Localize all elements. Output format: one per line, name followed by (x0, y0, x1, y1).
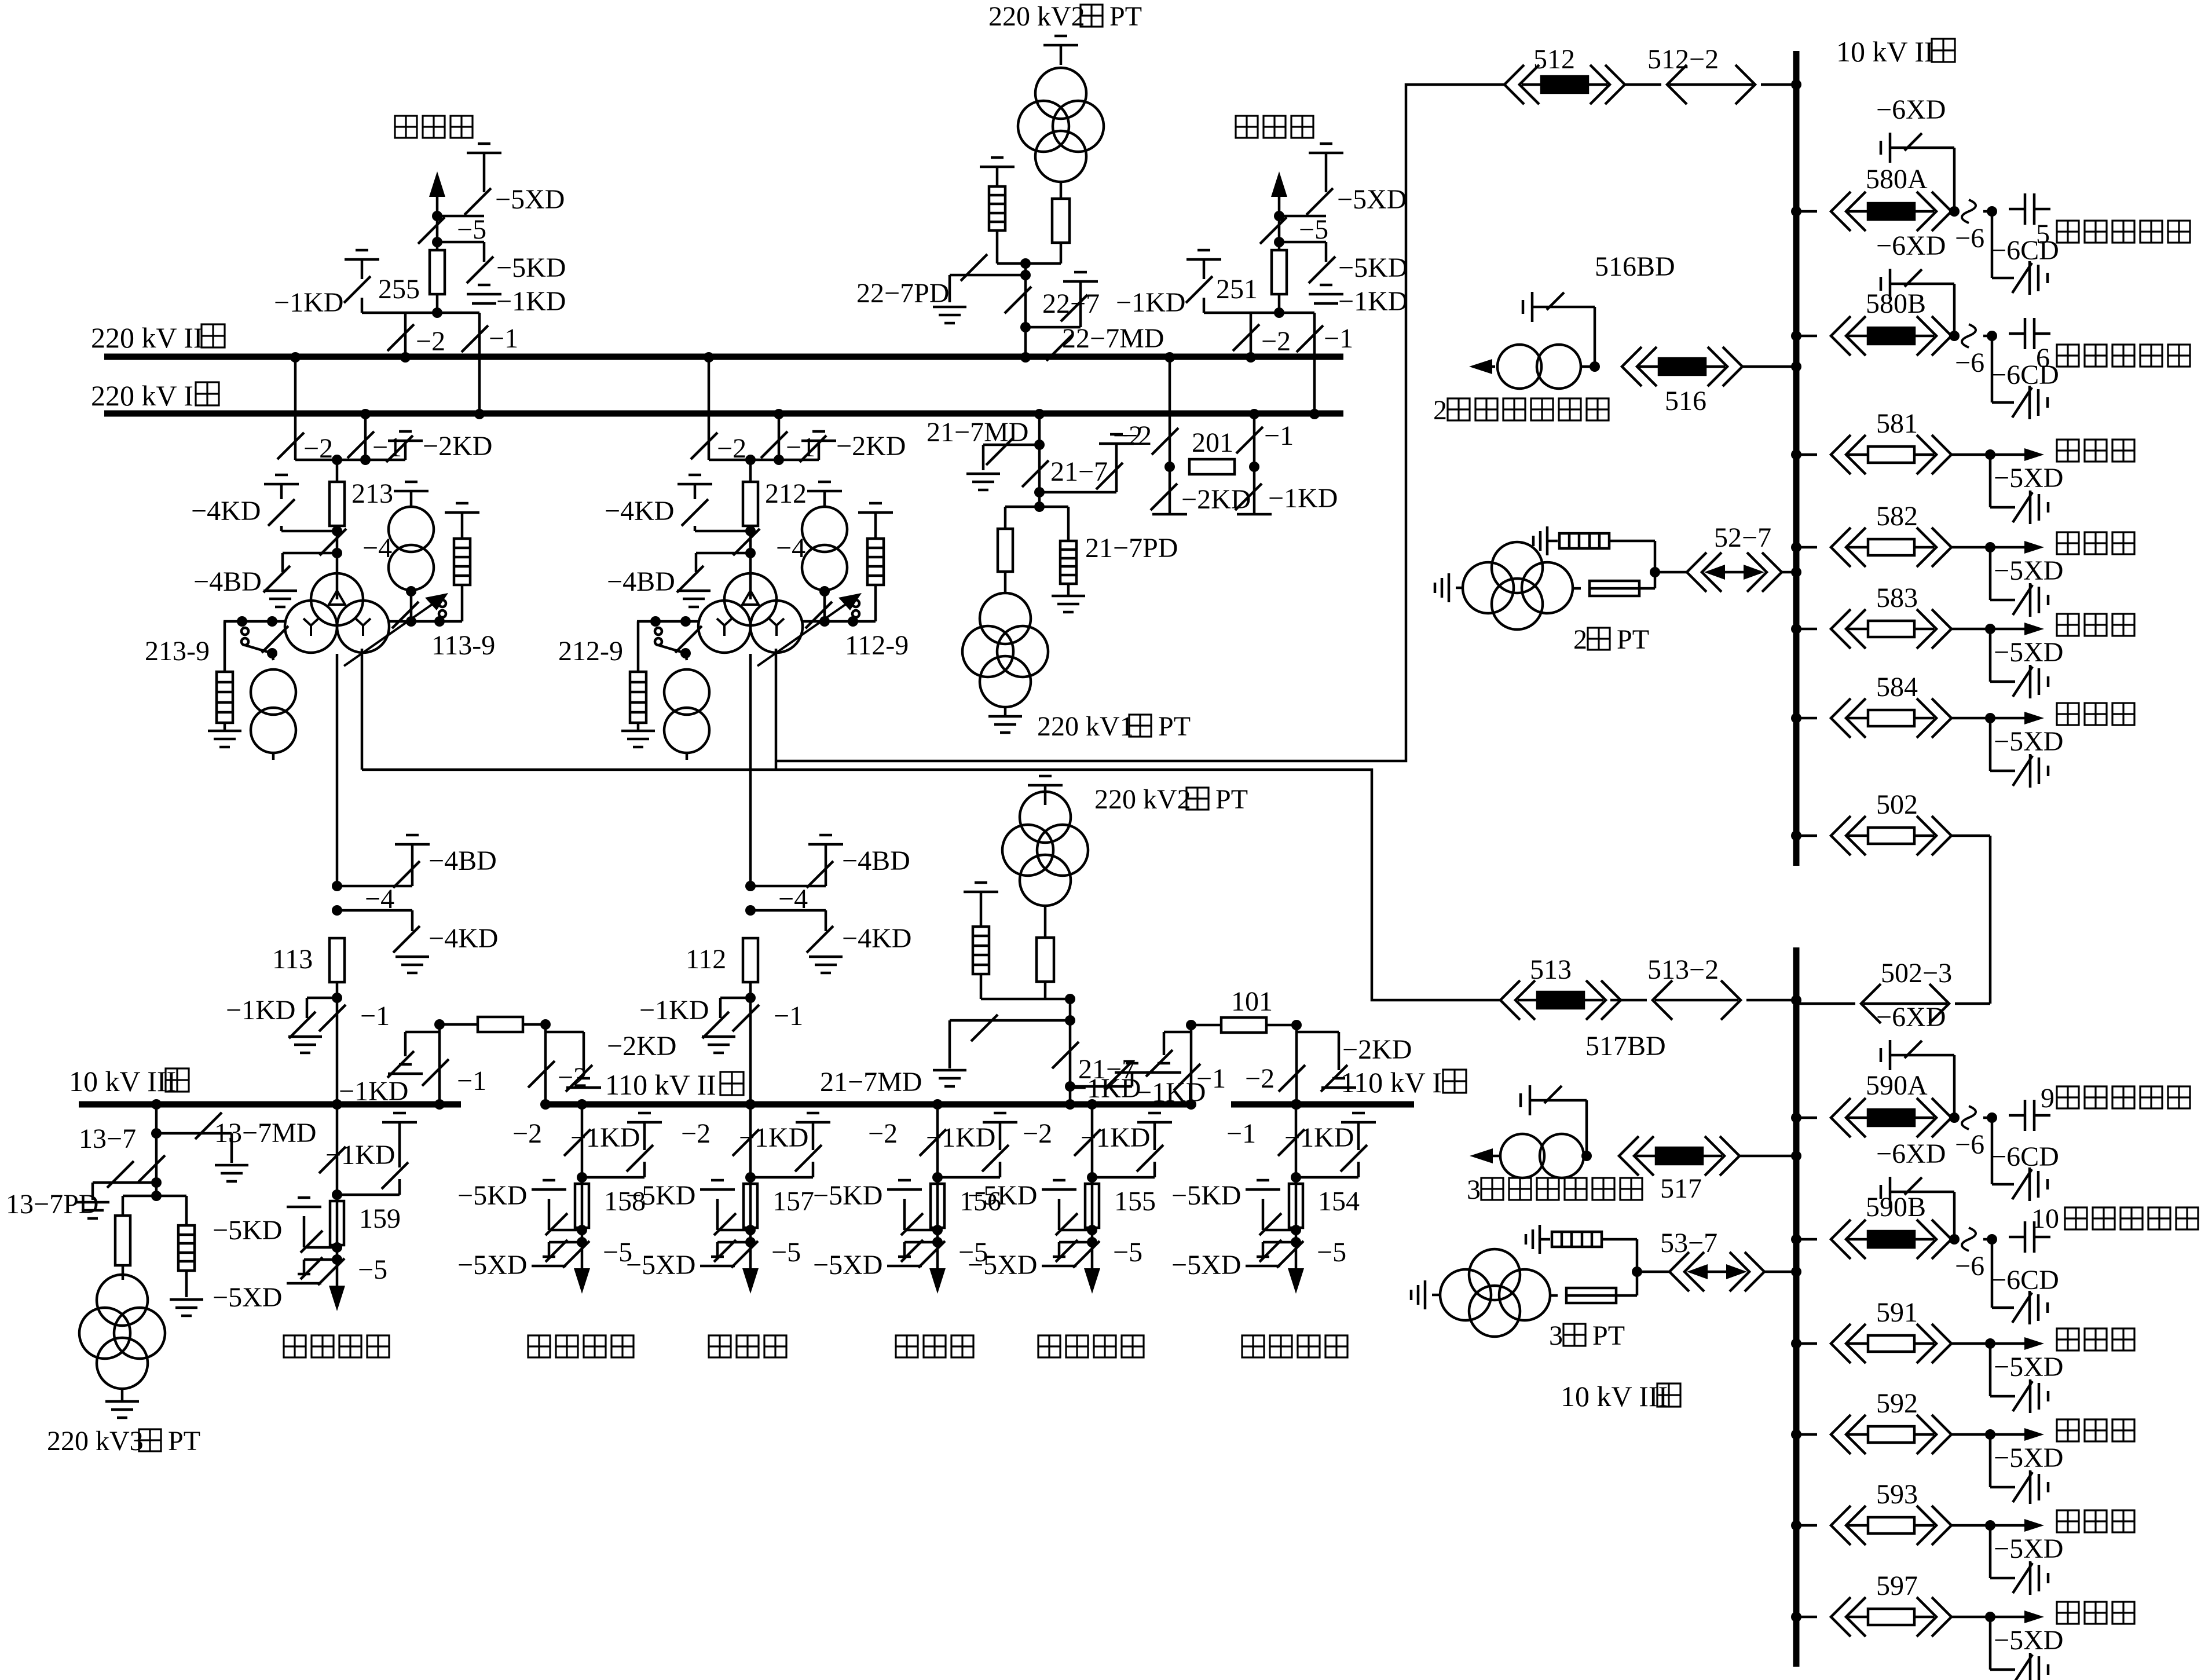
bus node 582 (1791, 542, 1817, 552)
PT 220kV2 (4-winding) (1018, 68, 1104, 182)
label -5XD 584 (1994, 726, 2063, 757)
departure arrow 583 (1990, 623, 2044, 635)
disconnector -5 f (1277, 1241, 1303, 1268)
ground 21-7PD (1052, 596, 1085, 612)
svg-text:−5XD: −5XD (1994, 463, 2063, 493)
node 13-7 b (151, 1177, 162, 1188)
wire -5XD 592 (1990, 1434, 2015, 1487)
grounding switch 13-7MD (156, 1112, 232, 1163)
capacitor (590B) (2009, 1221, 2050, 1253)
svg-text:220 kV1: 220 kV1 (1037, 711, 1134, 742)
svg-text:581: 581 (1876, 408, 1918, 439)
disconnector -4 (733, 529, 760, 555)
label 110 kV I section (1341, 1066, 1466, 1099)
disconnector -2 (bay) (691, 433, 717, 459)
arrester (bay right) (858, 503, 893, 621)
svg-text:−1KD: −1KD (739, 1122, 808, 1153)
drop 21-7 lower (1065, 999, 1075, 1110)
svg-text:−1KD: −1KD (1338, 286, 1408, 317)
label -2KD (bay) (836, 431, 906, 462)
disconnector -2 (to bus II) (1233, 313, 1259, 357)
label 512-2 (1647, 44, 1719, 75)
svg-text:−5XD: −5XD (1994, 1625, 2063, 1656)
disconnector -5 f (563, 1241, 589, 1268)
ground cap -1KD f (382, 1113, 417, 1189)
node 583 out (1985, 624, 1995, 634)
disconnector -2 (101) (1279, 1065, 1305, 1092)
label -5 f (1317, 1237, 1346, 1268)
label -5XD (1171, 1250, 1241, 1280)
label -6XD (580A) (1876, 94, 1946, 125)
contacts right (852, 600, 859, 617)
svg-text:−4BD: −4BD (842, 846, 910, 876)
grounding switch -4BD lower (750, 861, 833, 888)
feeder name (1038, 1335, 1144, 1357)
svg-text:−2KD: −2KD (1342, 1034, 1412, 1065)
PT 3hao (4-winding) (1440, 1249, 1550, 1337)
svg-text:−1KD: −1KD (1268, 483, 1338, 514)
bus node 13-7 (151, 1099, 162, 1196)
label -5KD (1338, 252, 1408, 283)
label 502 (1876, 789, 1918, 820)
grounding switch -5XD (714, 1240, 750, 1262)
svg-text:−5KD: −5KD (457, 1180, 527, 1211)
svg-text:3: 3 (1467, 1174, 1481, 1205)
disconnector -2 (to bus II) (387, 313, 414, 357)
grounding switch -1KD lower (289, 998, 337, 1038)
svg-text:113-9: 113-9 (431, 630, 495, 661)
node left ct (680, 648, 691, 660)
feeder name (1242, 1335, 1347, 1357)
node 597 out (1985, 1612, 1995, 1622)
svg-text:590B: 590B (1866, 1192, 1926, 1223)
ground cap -1KD f (982, 1113, 1017, 1172)
departure arrow 593 (1990, 1519, 2044, 1532)
label -2KD (101) (1342, 1034, 1412, 1065)
label -5 f (603, 1237, 632, 1268)
ground cap -5XD (1042, 1257, 1076, 1266)
bus node 580B (1791, 331, 1817, 341)
busbar 110 kV I section (1231, 1101, 1414, 1108)
label 157 (772, 1186, 814, 1217)
wire -5XD 597 (1990, 1617, 2015, 1670)
label -1KD (101) (1071, 1073, 1141, 1104)
label -4 text (362, 533, 392, 563)
label 220 kV II section (91, 321, 225, 354)
label 112 (686, 944, 726, 975)
node 13-7 a (151, 1128, 162, 1139)
label -4 lower (778, 884, 808, 914)
PT 220kV3 (4-winding) (79, 1275, 165, 1389)
contacts left (241, 626, 288, 653)
bus node 513-2 (1791, 995, 1801, 1005)
departure arrow 154 (1288, 1268, 1304, 1294)
node a (1274, 211, 1326, 221)
label 213 (351, 478, 393, 509)
label 22-7 (1042, 288, 1100, 319)
svg-text:−6: −6 (1955, 1129, 1984, 1160)
ground cap -5KD (887, 1180, 922, 1230)
disconnector −2 (feeder) (564, 1129, 591, 1156)
LV link left (224, 616, 285, 627)
label -4KD lower (429, 923, 498, 954)
grounding switch 13-7PD (93, 1161, 156, 1200)
capacitor bank name (2057, 1086, 2190, 1108)
svg-text:−5XD: −5XD (1337, 184, 1407, 215)
svg-text:21−7PD: 21−7PD (1085, 533, 1178, 563)
ground cap -1KD f (1137, 1113, 1172, 1172)
bus II node (400, 352, 411, 363)
label -4BD lower (429, 846, 497, 876)
node -4BD lower (745, 881, 756, 891)
label -1KD f (570, 1122, 640, 1153)
breaker 593 (drawout) (1831, 1506, 1951, 1545)
wire -5XD 582 (1990, 547, 2015, 600)
svg-text:−5XD: −5XD (457, 1250, 527, 1280)
label -5KD (1171, 1180, 1241, 1211)
svg-text:580A: 580A (1866, 164, 1928, 195)
ground 21-7MD lower (933, 1070, 966, 1086)
line departure arrow (429, 171, 445, 250)
wire 581 (1951, 453, 1990, 456)
svg-text:−2KD: −2KD (836, 431, 906, 462)
departure arrow 591 (1990, 1337, 2044, 1350)
label breaker 251 (1216, 274, 1258, 305)
grounding switch -5KD (1309, 257, 1335, 283)
breaker 582 (drawout) (1831, 528, 1951, 567)
node f b (745, 1225, 756, 1247)
label 22-7PD (856, 278, 949, 309)
svg-text:−2: −2 (1245, 1063, 1275, 1094)
svg-text:−2: −2 (868, 1118, 898, 1149)
HV lead down (336, 654, 339, 886)
HV lead down (749, 654, 752, 886)
PT2 fuse (1052, 182, 1070, 263)
svg-text:−2: −2 (1023, 1118, 1052, 1149)
svg-text:593: 593 (1876, 1479, 1918, 1510)
tie 101 right riser (1291, 1020, 1302, 1110)
node f a (332, 1179, 400, 1200)
feeder name 592 (2057, 1419, 2134, 1441)
bus node 112 (745, 1099, 756, 1110)
ground 21-7MD (966, 474, 1000, 490)
label 512 (1533, 44, 1575, 75)
svg-text:−1KD: −1KD (1284, 1122, 1354, 1153)
label -5 f (771, 1237, 801, 1268)
label -1 low (360, 1001, 390, 1031)
label 13-7MD (214, 1118, 316, 1148)
capacitor bank name (2057, 221, 2190, 243)
grounding switch -5XD 582 (2013, 583, 2048, 617)
breaker 597 (drawout) (1831, 1597, 1951, 1637)
breaker 155 (1085, 1184, 1099, 1228)
label 52-7 (1714, 522, 1771, 553)
node 22-7 b (1020, 295, 1087, 332)
disconnector -4 (320, 529, 346, 555)
label -1KD right (496, 286, 566, 317)
CT drop (392, 586, 419, 628)
tertiary lead down (775, 649, 778, 770)
breaker 581 (drawout) (1831, 435, 1951, 474)
svg-text:−5XD: −5XD (1994, 1533, 2063, 1564)
grounding sw -1KD (tie L) (387, 1032, 440, 1078)
wire to -6CD (1992, 1118, 2014, 1184)
bus I node (474, 409, 485, 419)
feeder name (284, 1335, 389, 1357)
disconnector -5 (418, 217, 445, 244)
svg-text:−1KD: −1KD (1116, 287, 1185, 318)
node 590B b (1983, 1234, 1997, 1245)
arrester (bay right) (445, 503, 479, 621)
label 513-2 (1647, 954, 1719, 985)
label 580A (1866, 164, 1928, 195)
disconnector 53-7 (1669, 1252, 1796, 1291)
svg-text:212: 212 (765, 478, 807, 509)
node 591 out (1985, 1338, 1995, 1349)
bus II node (1246, 352, 1256, 363)
svg-text:10 kV II: 10 kV II (1836, 35, 1934, 68)
label -4BD (193, 566, 262, 597)
LV link left (637, 616, 698, 627)
feeder name (896, 1335, 973, 1357)
svg-text:−1KD: −1KD (496, 286, 566, 317)
fuse bottom (2hao PT) (1573, 572, 1655, 596)
line departure arrow (1271, 171, 1287, 250)
disconnector -1 (101) (1174, 1064, 1200, 1090)
svg-text:−4KD: −4KD (429, 923, 498, 954)
label -2 (416, 326, 445, 357)
feeder name 584 (2057, 703, 2134, 725)
label -4 text (776, 533, 805, 563)
label -6CD (1991, 1265, 2059, 1295)
node f b (1291, 1225, 1301, 1247)
node c (405, 308, 479, 318)
label -1KD f (1284, 1122, 1354, 1153)
grounding switch 21-7MD lower (950, 1015, 1070, 1068)
ground cap -5XD (887, 1257, 922, 1266)
node 516 (1581, 361, 1600, 372)
wire tertiary link L2 (213 to 513) (362, 770, 1500, 1000)
breaker 255 (430, 250, 445, 313)
svg-text:−1: −1 (1226, 1118, 1256, 1149)
svg-text:−5KD: −5KD (813, 1180, 882, 1211)
node -1 lower (332, 993, 342, 1003)
node a (432, 211, 484, 221)
node -4 lower (332, 905, 342, 916)
grounding switch -4BD (263, 553, 337, 592)
label 3hao PT (1549, 1320, 1625, 1351)
node -4 lower (745, 905, 756, 916)
bus node 592 (1791, 1429, 1817, 1440)
disconnector 513-2 (1610, 980, 1796, 1020)
svg-text:112-9: 112-9 (845, 630, 909, 661)
wire 597 (1951, 1616, 1990, 1619)
ground PT3 (105, 1389, 139, 1418)
bus tie 201 right riser (bus I) (1249, 409, 1259, 514)
grounding switch -1KD lower (702, 998, 750, 1038)
grounding switch 22-7PD (950, 254, 1026, 302)
ground cap 21-7 right (1099, 434, 1134, 492)
CT pair (bay) (802, 482, 847, 590)
label −2 f (512, 1118, 542, 1149)
svg-text:−5KD: −5KD (626, 1180, 695, 1211)
node 580B a (1949, 331, 1960, 341)
node -4 (332, 526, 342, 536)
PT3 fuse branch (115, 1196, 130, 1280)
ground cap -4KD (677, 475, 712, 499)
label 502-3 (1881, 958, 1952, 989)
svg-text:−1: −1 (360, 1001, 390, 1031)
ground cap -1KD f (627, 1113, 662, 1172)
breaker 516 (drawout) (1622, 347, 1796, 386)
svg-text:213: 213 (351, 478, 393, 509)
breaker 213 (329, 460, 345, 553)
label −2 f (681, 1118, 711, 1149)
ground 22-7PD (933, 307, 966, 323)
wire tertiary link L1 (212 to 512) (776, 85, 1504, 761)
label 113 (272, 944, 313, 975)
svg-text:−4BD: −4BD (429, 846, 497, 876)
svg-text:−6XD: −6XD (1876, 1139, 1946, 1169)
station transformer 2 (1469, 345, 1581, 389)
label -4KD (605, 496, 674, 526)
disconnector -5 f (918, 1241, 945, 1268)
svg-text:−6XD: −6XD (1876, 94, 1946, 125)
svg-text:−1KD: −1KD (226, 995, 295, 1026)
svg-text:2: 2 (1433, 395, 1447, 426)
label -5XD 583 (1994, 637, 2063, 668)
node 580A a (1949, 206, 1960, 217)
LV link right (389, 616, 462, 627)
svg-text:−1: −1 (786, 432, 815, 463)
grounding switch -6CD (2012, 261, 2048, 295)
label f (0, 0, 1, 1)
svg-text:−6CD: −6CD (1991, 1141, 2059, 1172)
grounding switch -1KD left (1186, 276, 1213, 303)
node 593 out (1985, 1520, 1995, 1531)
label -6XD (590B) (1876, 1139, 1946, 1169)
label 2hao PT (1573, 624, 1649, 655)
disconnector -1 lower (733, 1005, 759, 1031)
label −1 f (1226, 1118, 1256, 1149)
svg-text:512−2: 512−2 (1647, 44, 1719, 75)
svg-text:−5KD: −5KD (1171, 1180, 1241, 1211)
main transformer 213 (285, 553, 448, 666)
disconnector -5 (1260, 217, 1287, 244)
departure arrow 156 (929, 1268, 946, 1294)
label -5XD (813, 1250, 882, 1280)
label 516 (1665, 386, 1706, 416)
contacts left (655, 626, 702, 653)
breaker 157 (744, 1184, 757, 1228)
bus node 159 (332, 1099, 342, 1303)
bus node 512 (1791, 79, 1801, 90)
breaker 156 (931, 1184, 944, 1228)
node 21-7 a (1034, 440, 1045, 450)
bus node 113 (332, 1099, 342, 1110)
switch -6 (590B) (1962, 1228, 1976, 1251)
svg-text:−1: −1 (1324, 323, 1353, 354)
PT 2hao (4-winding) (1463, 542, 1573, 629)
ground above PT2 (1043, 36, 1078, 65)
grounding switch -6CD (2012, 1167, 2048, 1201)
svg-text:−5KD: −5KD (1338, 252, 1408, 283)
grounding switch -1KD left (344, 276, 371, 303)
grounding switch -5KD (545, 1213, 582, 1235)
grounding switch -5KD (901, 1213, 937, 1235)
label -5KD (813, 1180, 882, 1211)
label 158 (604, 1186, 646, 1217)
tie left riser b (540, 1019, 551, 1110)
grounding switch -5KD (467, 257, 493, 283)
label -1KD f (739, 1122, 808, 1153)
label -4KD (191, 496, 261, 526)
bus node 157 (745, 1099, 756, 1286)
label -1 (489, 323, 518, 354)
svg-text:−1: −1 (372, 432, 402, 463)
hatch fuse top (3hao PT) (1526, 1225, 1637, 1272)
label -2 (201) (1113, 420, 1142, 451)
grounding switch -5XD (1306, 188, 1333, 215)
svg-text:597: 597 (1876, 1571, 1918, 1601)
label 2 hao zhan yong transformer (1433, 395, 1609, 426)
label -4 lower (365, 884, 394, 914)
label 10 kV III section (left) (69, 1065, 189, 1097)
node b (432, 237, 484, 262)
label 597 (1876, 1571, 1918, 1601)
grounding switch -5XD (301, 1257, 337, 1279)
label -5 f (958, 1237, 988, 1268)
label -1 (101) (1196, 1063, 1226, 1094)
ground (line side) (1309, 144, 1343, 192)
feeder name (528, 1335, 633, 1357)
label -2 (101) (1245, 1063, 1275, 1094)
breaker 251 (1272, 250, 1287, 313)
label 10 kV II section (right) (1836, 35, 1955, 68)
wire 582 (1951, 546, 1990, 549)
label -5KD (968, 1180, 1037, 1211)
label -1K right (1136, 1077, 1206, 1108)
label -1KD (201) (1268, 483, 1338, 514)
svg-text:220 kV2: 220 kV2 (988, 1, 1085, 32)
svg-text:−6: −6 (1955, 223, 1984, 254)
svg-text:−5XD: −5XD (1994, 726, 2063, 757)
switch -6 (590A) (1962, 1106, 1976, 1129)
label -1 (bay) (372, 432, 402, 463)
grounding switch -5KD (301, 1231, 337, 1253)
PT1 fuse branch (998, 507, 1039, 593)
label 220 kV2 hao PT (top) (988, 1, 1142, 32)
svg-text:584: 584 (1876, 672, 1918, 702)
bus node 597 (1791, 1612, 1817, 1622)
capacitor (580B) (2009, 318, 2050, 349)
bus node 158 (577, 1099, 587, 1286)
svg-text:−6XD: −6XD (1876, 1002, 1946, 1033)
ground cap -5XD (287, 1274, 321, 1283)
label -1 (201) (1264, 420, 1294, 451)
svg-text:583: 583 (1876, 583, 1918, 613)
label 590B (1866, 1192, 1926, 1223)
svg-text:−1: −1 (1196, 1063, 1226, 1094)
breaker 158 (575, 1184, 589, 1228)
svg-text:−1: −1 (1264, 420, 1294, 451)
departure arrow 597 (1990, 1611, 2044, 1623)
label 582 (1876, 501, 1918, 532)
ground cap -5XD (1246, 1257, 1280, 1266)
label -1KD left (1116, 287, 1185, 318)
svg-text:PT: PT (168, 1426, 200, 1456)
node 21-7 b (1034, 463, 1123, 497)
